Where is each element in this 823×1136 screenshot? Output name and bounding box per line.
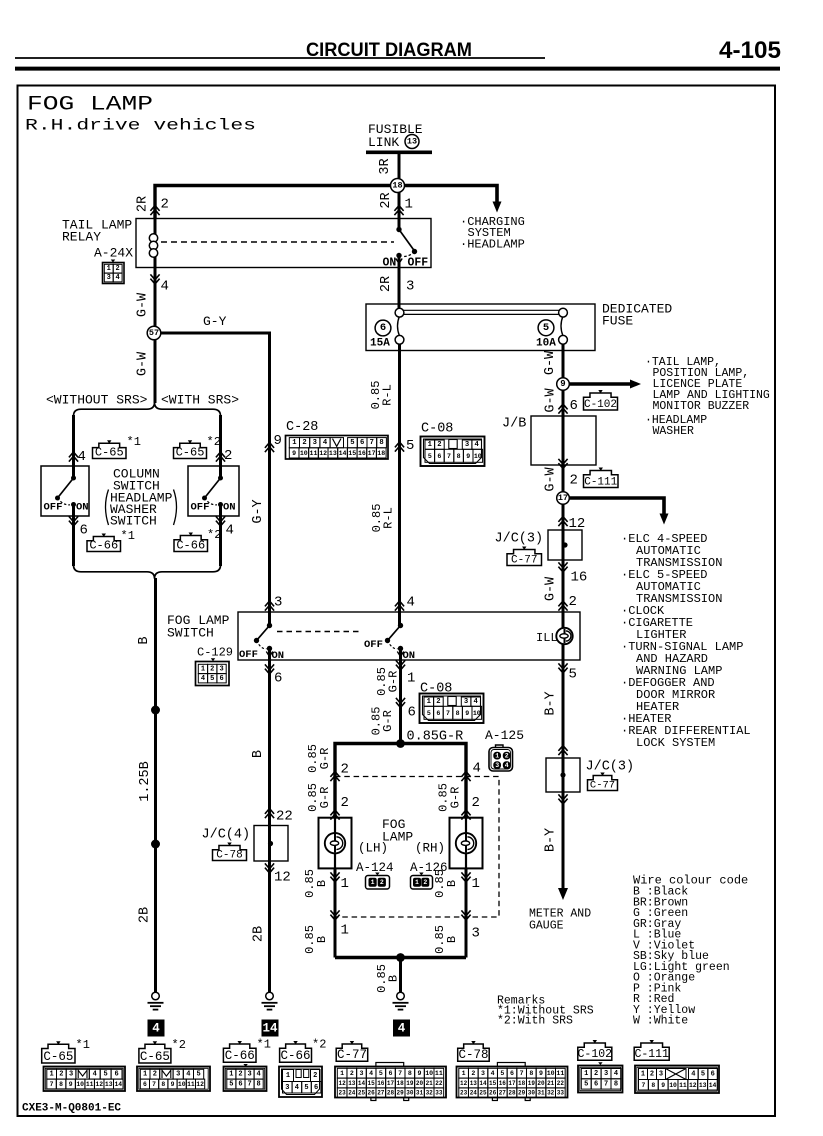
svg-text:2R: 2R xyxy=(379,192,394,208)
svg-text:13: 13 xyxy=(699,1082,707,1089)
svg-text:1: 1 xyxy=(407,671,415,687)
arrow to ELC transmission etc xyxy=(569,498,664,514)
svg-text:14: 14 xyxy=(709,1082,717,1089)
svg-text:5: 5 xyxy=(543,322,549,334)
svg-text:7: 7 xyxy=(370,439,374,447)
svg-text:9: 9 xyxy=(69,1081,73,1088)
svg-text:6: 6 xyxy=(711,1071,715,1079)
svg-text:15: 15 xyxy=(489,1080,497,1087)
svg-text:9: 9 xyxy=(539,1070,543,1077)
fusible link 13 xyxy=(366,122,432,152)
svg-text:15A: 15A xyxy=(370,338,390,350)
svg-text:2: 2 xyxy=(436,698,440,706)
svg-text:C-102: C-102 xyxy=(578,1048,613,1061)
svg-text:2: 2 xyxy=(350,1070,354,1077)
brace split without/with SRS xyxy=(74,402,221,416)
svg-text:FOG LAMP: FOG LAMP xyxy=(27,94,153,117)
svg-text:2: 2 xyxy=(472,795,480,811)
fog lamp ground rail xyxy=(335,956,466,959)
svg-text:R.H.drive vehicles: R.H.drive vehicles xyxy=(25,117,256,135)
svg-text:9: 9 xyxy=(560,379,565,389)
tail lamp relay A-24X box xyxy=(136,219,431,268)
connector chevron J/B out pin 2 xyxy=(558,459,567,469)
svg-text:GAUGE: GAUGE xyxy=(529,920,564,933)
svg-text:9: 9 xyxy=(418,1070,422,1077)
svg-text:4: 4 xyxy=(93,1071,97,1079)
svg-text:5: 5 xyxy=(350,439,354,447)
svg-text:C-102: C-102 xyxy=(584,399,617,411)
svg-text:6: 6 xyxy=(436,710,440,717)
svg-text:9: 9 xyxy=(661,1082,665,1089)
connector chevron LH feed 2 lower xyxy=(330,810,339,820)
svg-text:13: 13 xyxy=(329,450,337,457)
svg-text:1: 1 xyxy=(143,1071,147,1079)
svg-text:SWITCH: SWITCH xyxy=(110,514,157,529)
svg-text:3R: 3R xyxy=(378,158,393,174)
connector C-77 half upper xyxy=(507,550,542,566)
connector chevron J/C(4) out pin 12 xyxy=(265,863,274,873)
svg-text:8: 8 xyxy=(457,453,461,460)
svg-text:2B: 2B xyxy=(252,926,267,942)
ground id 4 left xyxy=(148,1020,165,1037)
svg-text:22: 22 xyxy=(435,1080,443,1087)
svg-text:11: 11 xyxy=(187,1081,195,1088)
svg-text:9: 9 xyxy=(274,433,282,449)
svg-text:3: 3 xyxy=(359,1070,363,1077)
svg-text:15: 15 xyxy=(348,450,356,457)
svg-text:2: 2 xyxy=(210,665,214,673)
svg-text:28: 28 xyxy=(387,1090,395,1097)
svg-text:5: 5 xyxy=(196,1071,200,1079)
connector C-08 lower xyxy=(420,682,484,724)
svg-text:1: 1 xyxy=(584,1070,588,1078)
svg-text:4: 4 xyxy=(152,1022,160,1036)
fog lamp LH xyxy=(334,818,336,869)
connector chevron C-08 pin 6 xyxy=(396,698,405,708)
svg-text:6: 6 xyxy=(510,1070,514,1077)
relay gang dashed link xyxy=(161,241,394,243)
wire: fuse 5 to junction 9 (G-W) xyxy=(562,344,565,889)
svg-text:1: 1 xyxy=(415,879,419,886)
svg-text:(RH): (RH) xyxy=(415,842,445,856)
column switch box without SRS xyxy=(41,466,89,516)
column switch contact without SRS xyxy=(55,476,76,508)
svg-text:7: 7 xyxy=(520,1070,524,1077)
label COLUMN SWITCH HEADLAMP WASHER SWITCH xyxy=(106,467,177,529)
svg-text:G-R: G-R xyxy=(318,748,332,770)
svg-text:28: 28 xyxy=(508,1090,516,1097)
svg-text:5: 5 xyxy=(210,675,214,683)
svg-text:ON: ON xyxy=(223,502,236,514)
svg-text:<WITHOUT SRS>: <WITHOUT SRS> xyxy=(46,393,148,408)
svg-text:7: 7 xyxy=(398,1070,402,1077)
svg-text:14: 14 xyxy=(114,1081,122,1088)
svg-text:1: 1 xyxy=(472,876,480,892)
connector chevron J/C(3)b in xyxy=(558,746,567,756)
svg-text:2: 2 xyxy=(116,265,120,273)
svg-text:6: 6 xyxy=(389,1070,393,1077)
connector C-78 pinout xyxy=(457,1041,568,1101)
svg-text:12: 12 xyxy=(460,1080,468,1087)
svg-text:6: 6 xyxy=(570,398,578,414)
svg-text:A-124: A-124 xyxy=(356,861,394,875)
svg-text:C-77: C-77 xyxy=(511,554,537,566)
svg-text:4-105: 4-105 xyxy=(719,37,781,64)
connector C-102 pinout xyxy=(578,1040,623,1093)
svg-text:6: 6 xyxy=(437,453,441,460)
svg-text:B: B xyxy=(137,636,152,644)
remarks legend xyxy=(497,995,594,1028)
svg-text:C-111: C-111 xyxy=(634,1048,669,1061)
svg-text:18: 18 xyxy=(518,1080,526,1087)
svg-text:C-129: C-129 xyxy=(197,646,233,660)
svg-text:26: 26 xyxy=(489,1090,497,1097)
svg-text:4: 4 xyxy=(491,1070,495,1077)
wire: fog switch to ground (B / 2B) xyxy=(268,649,271,993)
svg-text:1: 1 xyxy=(286,1072,290,1080)
label ON OFF relay xyxy=(383,257,429,270)
svg-text:30: 30 xyxy=(406,1090,414,1097)
svg-text:9: 9 xyxy=(171,1081,175,1088)
svg-text:1.25B: 1.25B xyxy=(138,761,153,802)
svg-text:4: 4 xyxy=(398,1022,406,1036)
title FOG LAMP R.H. drive vehicles xyxy=(25,94,256,135)
svg-text:C-77: C-77 xyxy=(590,779,615,791)
connector chevron fog out pin 1 xyxy=(396,660,405,670)
svg-text:11: 11 xyxy=(86,1081,94,1088)
svg-text:13: 13 xyxy=(105,1081,113,1088)
svg-text:2: 2 xyxy=(569,594,577,610)
svg-text:29: 29 xyxy=(518,1090,526,1097)
connector chevron pin 1 xyxy=(394,206,403,216)
wire: fog switch output (0.85 G-R) to junction xyxy=(399,649,402,744)
svg-text:25: 25 xyxy=(479,1090,487,1097)
arrow to charging system / headlamp xyxy=(405,186,498,202)
svg-text:4: 4 xyxy=(323,439,328,447)
svg-text:29: 29 xyxy=(397,1090,405,1097)
svg-text:*2: *2 xyxy=(207,435,221,449)
wire: fusible link to junction 18 (3R) and to relay pin 1 xyxy=(398,152,401,230)
connector icon A-24X xyxy=(103,260,125,284)
connector C-65 *2 half xyxy=(174,443,207,458)
fog lamp feed rail xyxy=(335,744,466,818)
svg-text:2R: 2R xyxy=(136,196,151,212)
wire colour code legend xyxy=(633,874,748,1028)
svg-text:4: 4 xyxy=(691,1071,695,1079)
svg-text:2: 2 xyxy=(313,1072,317,1080)
fog switch contact left xyxy=(254,623,273,657)
svg-text:4: 4 xyxy=(473,761,481,777)
svg-text:8: 8 xyxy=(614,1080,618,1088)
svg-text:B: B xyxy=(387,975,401,982)
svg-text:7: 7 xyxy=(152,1081,156,1088)
svg-text:G-Y: G-Y xyxy=(251,499,266,523)
fog switch gang dashed link xyxy=(277,631,362,633)
connector icon A-126 xyxy=(411,873,433,890)
svg-text:9: 9 xyxy=(292,450,296,457)
svg-text:23: 23 xyxy=(339,1090,347,1097)
svg-text:4: 4 xyxy=(201,675,205,683)
svg-text:4: 4 xyxy=(474,698,479,706)
svg-text:6: 6 xyxy=(80,523,88,539)
label FOG LAMP (LH) (RH) xyxy=(358,817,445,856)
svg-text:17: 17 xyxy=(368,450,376,457)
svg-text:8: 8 xyxy=(161,1081,165,1088)
svg-text:6: 6 xyxy=(274,671,282,687)
svg-text:J/C(3): J/C(3) xyxy=(586,760,635,775)
svg-text:*2: *2 xyxy=(172,1038,186,1052)
connector C-111 half xyxy=(584,471,619,488)
dedicated fuse box xyxy=(366,304,595,351)
svg-text:B-Y: B-Y xyxy=(544,828,559,852)
svg-text:18: 18 xyxy=(377,450,385,457)
svg-text:2: 2 xyxy=(59,1071,63,1079)
svg-text:G-W: G-W xyxy=(136,292,151,317)
svg-text:6: 6 xyxy=(594,1080,598,1088)
connector chevron pin 4 xyxy=(150,274,159,284)
svg-text:5: 5 xyxy=(104,1071,108,1079)
wire: branch with SRS to column switch xyxy=(219,415,222,478)
connector C-102 half xyxy=(584,393,618,410)
svg-text:9: 9 xyxy=(465,710,469,717)
svg-text:4: 4 xyxy=(257,1071,261,1079)
svg-text:C-66: C-66 xyxy=(225,1049,255,1063)
svg-text:1: 1 xyxy=(341,876,349,892)
svg-text:11: 11 xyxy=(435,1070,443,1077)
svg-text:8: 8 xyxy=(529,1070,533,1077)
svg-text:R-L: R-L xyxy=(382,507,396,529)
svg-text:7: 7 xyxy=(447,453,451,460)
svg-text:1: 1 xyxy=(201,665,205,673)
svg-text:3: 3 xyxy=(69,1071,73,1079)
svg-text:R-L: R-L xyxy=(381,384,395,406)
label WITHOUT SRS / WITH SRS xyxy=(46,393,239,408)
svg-text:C-78: C-78 xyxy=(458,1048,488,1062)
svg-text:2: 2 xyxy=(471,1070,475,1077)
svg-text:12: 12 xyxy=(689,1082,697,1089)
connector chevron fog switch pin 3 xyxy=(265,601,274,611)
svg-text:24: 24 xyxy=(348,1090,356,1097)
svg-text:12: 12 xyxy=(339,1080,347,1087)
svg-text:C-65: C-65 xyxy=(43,1050,73,1064)
ground id 14 middle xyxy=(262,1020,279,1037)
page header CIRCUIT DIAGRAM 4-105 xyxy=(15,37,781,69)
svg-text:12: 12 xyxy=(274,870,291,886)
connector C-66 *2 pinout xyxy=(279,1038,326,1098)
label ELC clock cigarette lighter list xyxy=(621,532,751,750)
svg-text:LINK: LINK xyxy=(368,135,399,150)
connector chevron J/C(3) out pin 16 xyxy=(558,562,567,572)
junction connector J/C(3) lower xyxy=(546,758,580,792)
svg-text:10: 10 xyxy=(300,450,308,457)
connector C-65 *2 pinout xyxy=(137,1038,210,1091)
wire: LH lamp to ground rail (0.85 B) xyxy=(334,868,337,957)
svg-text:25: 25 xyxy=(358,1090,366,1097)
svg-text:3: 3 xyxy=(219,665,223,673)
svg-text:B: B xyxy=(315,880,329,887)
svg-text:7: 7 xyxy=(604,1080,608,1088)
svg-text:13: 13 xyxy=(348,1080,356,1087)
junction 18 xyxy=(391,179,405,193)
wire: relay coil pin 2 through coil to pin 4 / junction 57 (G-W) xyxy=(154,219,157,404)
svg-text:3: 3 xyxy=(406,279,414,295)
svg-text:10: 10 xyxy=(474,453,482,460)
svg-text:G-R: G-R xyxy=(381,710,395,732)
svg-text:3: 3 xyxy=(274,595,282,611)
svg-text:57: 57 xyxy=(149,328,159,338)
svg-text:1: 1 xyxy=(405,197,413,213)
svg-text:C-111: C-111 xyxy=(584,476,617,488)
svg-text:C-66: C-66 xyxy=(176,538,205,552)
connector C-08 upper xyxy=(421,422,485,467)
svg-text:5: 5 xyxy=(406,438,414,454)
svg-text:14: 14 xyxy=(479,1080,487,1087)
svg-text:3: 3 xyxy=(176,1071,180,1079)
junction 57 xyxy=(147,326,161,340)
svg-text:4: 4 xyxy=(295,1084,299,1092)
svg-text:1: 1 xyxy=(371,879,375,886)
svg-text:10: 10 xyxy=(178,1081,186,1088)
svg-text:16: 16 xyxy=(358,450,366,457)
connector C-66 *1 pinout xyxy=(223,1038,271,1092)
svg-text:2: 2 xyxy=(423,879,427,886)
wire label 2R pin 1 xyxy=(379,192,413,212)
svg-text:2R: 2R xyxy=(379,276,394,292)
svg-text:·HEADLAMP: ·HEADLAMP xyxy=(460,238,525,252)
svg-text:4: 4 xyxy=(226,523,234,539)
svg-text:OFF: OFF xyxy=(191,502,210,514)
svg-text:8: 8 xyxy=(456,710,460,717)
svg-text:3: 3 xyxy=(604,1070,608,1078)
svg-text:G-R: G-R xyxy=(387,671,401,693)
svg-text:3: 3 xyxy=(659,1071,663,1079)
connector chevron fog switch out pin 6 xyxy=(265,664,274,674)
svg-text:27: 27 xyxy=(499,1090,507,1097)
svg-text:6: 6 xyxy=(114,1071,118,1079)
svg-text:10: 10 xyxy=(76,1081,84,1088)
svg-text:MONITOR BUZZER: MONITOR BUZZER xyxy=(653,400,750,413)
connector chevron LH feed 2 upper xyxy=(330,772,339,782)
svg-text:B-Y: B-Y xyxy=(544,691,559,715)
junction splice upper xyxy=(151,706,160,715)
svg-text:G-W: G-W xyxy=(544,576,559,601)
label TAIL LAMP RELAY xyxy=(62,218,132,245)
svg-text:6: 6 xyxy=(238,1081,242,1089)
svg-text:3: 3 xyxy=(495,762,499,769)
connector chevron C-08 pin 5 xyxy=(395,442,404,452)
svg-text:19: 19 xyxy=(528,1080,536,1087)
label METER AND GAUGE xyxy=(529,908,591,933)
svg-text:ILL: ILL xyxy=(536,631,558,645)
svg-text:C-28: C-28 xyxy=(286,420,318,435)
relay contact switch xyxy=(396,227,417,264)
svg-text:5: 5 xyxy=(428,453,432,460)
svg-text:2B: 2B xyxy=(138,907,153,923)
svg-text:ON: ON xyxy=(272,650,285,662)
svg-text:33: 33 xyxy=(557,1090,565,1097)
connector chevron column pin 6 (without SRS) xyxy=(69,516,78,526)
wire label 2R pin 2 xyxy=(136,196,169,213)
svg-text:CXE3-M-Q0801-EC: CXE3-M-Q0801-EC xyxy=(22,1103,121,1115)
svg-text:A-125: A-125 xyxy=(485,728,524,743)
connector chevron ILL out 5 xyxy=(558,663,567,673)
connector chevron RH out 1 xyxy=(461,872,470,882)
svg-text:*2:With SRS: *2:With SRS xyxy=(497,1015,573,1028)
connector chevron column pin 4 (without SRS) xyxy=(69,452,78,462)
ground left xyxy=(154,980,157,992)
fuse 6 15A xyxy=(370,308,404,349)
svg-text:4: 4 xyxy=(475,441,480,449)
svg-text:18: 18 xyxy=(392,181,402,191)
junction splice lower xyxy=(151,840,160,849)
svg-text:1: 1 xyxy=(462,1070,466,1077)
svg-text:14: 14 xyxy=(358,1080,366,1087)
svg-text:5: 5 xyxy=(379,1070,383,1077)
svg-text:1: 1 xyxy=(495,753,499,760)
connector C-77 half lower xyxy=(588,776,618,791)
label tail lamp position lamp list xyxy=(645,356,770,438)
svg-text:1: 1 xyxy=(340,1070,344,1077)
svg-text:1: 1 xyxy=(641,1071,645,1079)
wire labels pin 4 G-W xyxy=(136,279,169,318)
svg-text:20: 20 xyxy=(416,1080,424,1087)
svg-text:20: 20 xyxy=(537,1080,545,1087)
svg-text:10: 10 xyxy=(547,1070,555,1077)
svg-text:3: 3 xyxy=(285,1084,289,1092)
svg-text:7: 7 xyxy=(50,1081,54,1088)
svg-text:4: 4 xyxy=(186,1071,190,1079)
connector chevron column pin 2 (with SRS) xyxy=(216,452,225,462)
svg-text:2: 2 xyxy=(153,1071,157,1079)
svg-text:FUSE: FUSE xyxy=(602,314,633,329)
junction connector J/C(4) xyxy=(254,826,288,862)
svg-text:18: 18 xyxy=(397,1080,405,1087)
connector chevron C-28 pin 9 xyxy=(265,443,274,453)
connector chevron LH harness out 1 xyxy=(330,910,339,920)
svg-text:15: 15 xyxy=(368,1080,376,1087)
svg-text:30: 30 xyxy=(528,1090,536,1097)
svg-text:(LH): (LH) xyxy=(358,842,388,856)
svg-text:11: 11 xyxy=(679,1082,687,1089)
connector C-111 pinout xyxy=(634,1040,719,1093)
svg-text:5: 5 xyxy=(500,1070,504,1077)
connector C-66 *2 half xyxy=(174,536,208,552)
svg-text:3: 3 xyxy=(247,1071,251,1079)
wire: battery feed horizontal to relay pin 2 (2R) xyxy=(155,186,399,219)
svg-text:3: 3 xyxy=(464,698,468,706)
connector chevron RH feed 2 xyxy=(461,810,470,820)
svg-text:14: 14 xyxy=(262,1022,278,1036)
svg-text:5: 5 xyxy=(584,1080,588,1088)
svg-text:6: 6 xyxy=(314,1084,318,1092)
svg-text:OFF: OFF xyxy=(364,639,383,651)
junction block J/B xyxy=(531,416,596,465)
svg-text:*1: *1 xyxy=(127,435,141,449)
svg-text:4: 4 xyxy=(78,449,86,465)
svg-text:4: 4 xyxy=(161,279,169,295)
svg-text:C-65: C-65 xyxy=(95,445,124,459)
dashed harness boundary around fog lamps xyxy=(335,777,499,918)
svg-text:12: 12 xyxy=(196,1081,204,1088)
svg-text:6: 6 xyxy=(380,322,386,334)
svg-text:J/C(4): J/C(4) xyxy=(202,828,251,843)
svg-text:6: 6 xyxy=(408,705,416,721)
svg-text:G-R: G-R xyxy=(318,787,332,809)
svg-text:3: 3 xyxy=(107,274,111,282)
connector C-78 half upper xyxy=(213,846,247,861)
svg-text:C-66: C-66 xyxy=(281,1049,311,1063)
svg-text:16: 16 xyxy=(571,570,588,586)
